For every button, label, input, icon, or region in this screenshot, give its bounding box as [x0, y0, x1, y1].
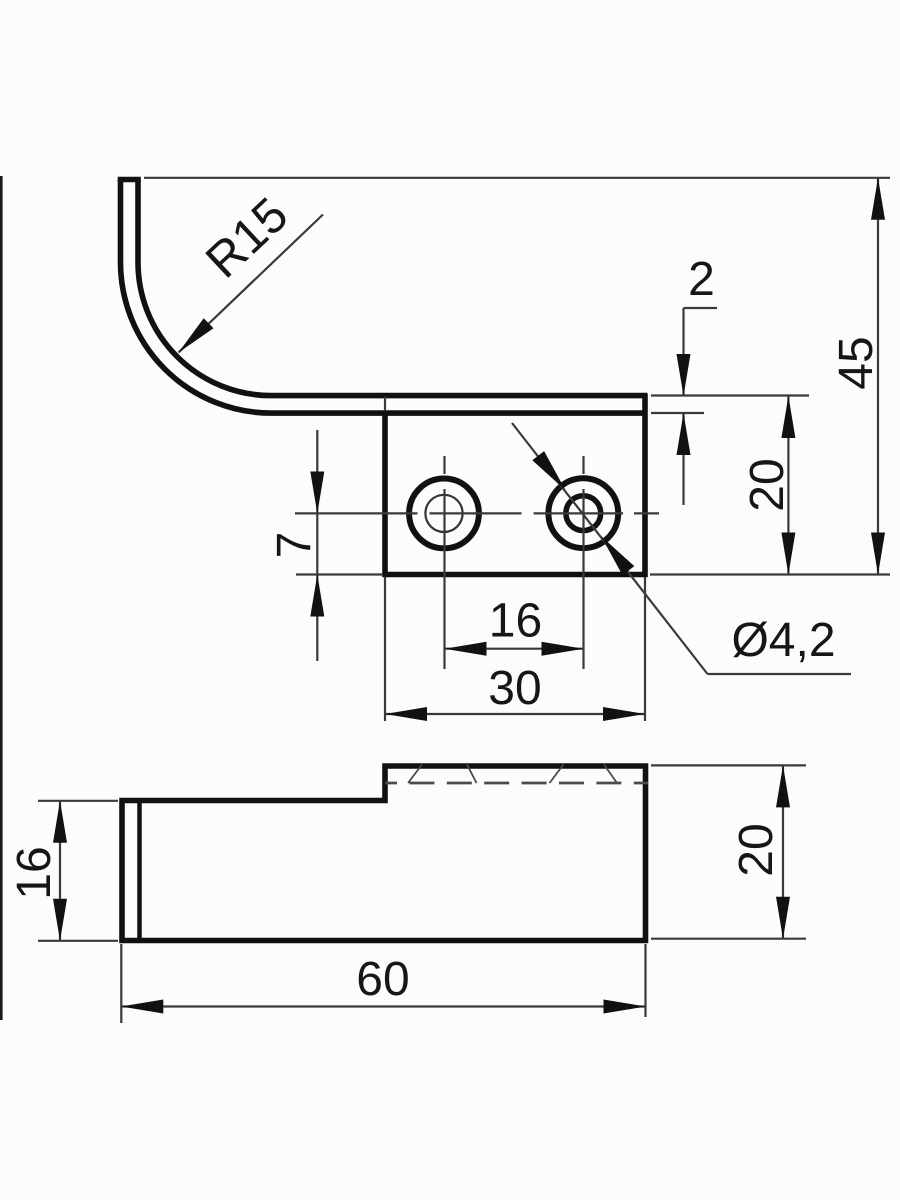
diameter leader shelf: [708, 673, 852, 675]
extension line: side view top left: [38, 800, 118, 802]
dimension 7: lower arrow (up): [310, 575, 324, 617]
dimension 2: upper arrow (down): [677, 354, 691, 396]
hole 2 bore circle (thick, dimensioned): [566, 496, 601, 531]
dimension 45: top arrow: [871, 178, 885, 220]
diameter leader arrow upper: [532, 451, 565, 490]
dimension 16 top view: line: [445, 648, 584, 650]
hole 1 vertical centerline: [443, 456, 445, 669]
hole 2 counterbore circle: [548, 478, 618, 548]
R15 leader line: [179, 215, 324, 353]
plate left edge: [382, 411, 388, 577]
side view outline: [122, 766, 646, 941]
hole 2 vertical centerline: [582, 456, 584, 669]
dimension 2: lower line: [682, 413, 684, 505]
plate bottom edge: [383, 572, 648, 578]
extension line: side view bottom left down (for 60): [120, 944, 122, 1023]
dimension 60: right arrow: [604, 1000, 646, 1014]
bracket flange top end cap: [118, 177, 141, 183]
svg-text:20: 20: [730, 823, 783, 876]
dimension 30: right arrow: [603, 707, 645, 721]
extension line: plate bottom left (for 7): [296, 573, 383, 575]
extension line: flange top to 45 dim: [144, 177, 890, 179]
dimension 16 side view: line: [59, 801, 61, 941]
extension line: side view bottom left: [38, 940, 118, 942]
side view flange inner edge line: [137, 801, 142, 941]
serration mark 1: [408, 765, 422, 784]
dimension 45: bottom arrow: [871, 533, 885, 575]
dimension 7: line: [316, 430, 318, 661]
dimension 16 side view: bottom arrow: [53, 899, 67, 941]
extension line: sheet bottom right (for 2): [651, 412, 704, 414]
svg-text:2: 2: [688, 253, 715, 306]
serration mark 3: [550, 765, 564, 784]
dimension 16 top view: right arrow: [542, 642, 584, 656]
dimension 20 upper right: line: [787, 396, 789, 575]
svg-text:45: 45: [830, 336, 883, 389]
hole 1 counterbore circle: [409, 479, 479, 549]
side view hidden dashed line: [385, 782, 648, 785]
extension line: plate bottom right to 45/20 dims: [650, 573, 890, 575]
dimension 7: upper arrow (down): [310, 472, 324, 514]
dimension 45: line: [877, 178, 879, 575]
extension line: side view bottom right: [651, 938, 806, 940]
diameter leader arrow lower: [601, 536, 634, 575]
horizontal centerline through holes: [295, 512, 659, 514]
dimension 2: leader shelf: [684, 307, 718, 309]
dimension 20 side view: line: [782, 765, 784, 938]
serration mark 2: [467, 765, 477, 784]
svg-text:60: 60: [356, 953, 409, 1006]
dimension 16 top view: left arrow: [445, 642, 487, 656]
dimension 2: lower arrow (up): [677, 413, 691, 455]
plate left edge (thin through sheet): [384, 397, 386, 414]
extension line: plate left down (for 30): [384, 577, 386, 721]
dimension 16 side view: top arrow: [53, 801, 67, 843]
bracket inner profile: inner edge, inner bend, top sheet line: [138, 180, 648, 396]
bracket outer profile: left edge, R15 bend, bottom sheet line: [121, 180, 648, 414]
serration mark 4: [604, 765, 617, 784]
svg-text:16: 16: [8, 846, 61, 899]
image left edge artifact line: [0, 176, 3, 1020]
svg-text:20: 20: [741, 458, 794, 511]
diameter leader line: [512, 423, 708, 674]
dimension 60: left arrow: [121, 1000, 163, 1014]
dimension 20 upper right: bottom arrow: [781, 533, 795, 575]
dimension 60: line: [121, 1005, 645, 1007]
dimension 20 upper right: top arrow: [781, 396, 795, 438]
dimension 20 side view: bottom arrow: [776, 897, 790, 939]
svg-text:7: 7: [268, 532, 321, 559]
svg-text:R15: R15: [196, 188, 299, 289]
extension line: sheet top right: [651, 394, 809, 396]
dimension 30: left arrow: [385, 707, 427, 721]
extension line: plate right down (for 30): [644, 577, 646, 721]
plate right edge: [642, 394, 648, 577]
dimension 20 side view: top arrow: [776, 765, 790, 807]
svg-text:16: 16: [489, 595, 542, 648]
extension line: side view bottom right down (for 60): [644, 944, 646, 1017]
hole 1 bore circle: [425, 495, 462, 532]
R15 leader arrowhead: [179, 318, 214, 352]
svg-text:30: 30: [488, 662, 541, 715]
svg-text:Ø4,2: Ø4,2: [731, 614, 835, 667]
dimension 30: line: [385, 713, 645, 715]
extension line: side view top right: [651, 764, 806, 766]
dimension 2: upper line: [682, 308, 684, 396]
